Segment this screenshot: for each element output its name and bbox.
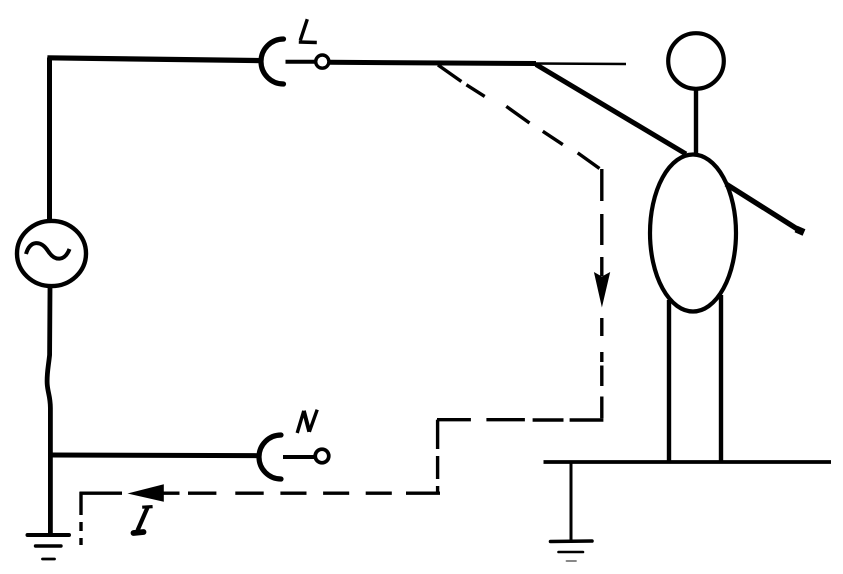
dashed current path: horizontal return to source xyxy=(80,492,441,495)
pin terminal circle N xyxy=(315,449,329,463)
dashed current path: corner and vertical through body xyxy=(600,169,603,276)
dashed current path: horizontal at knee level xyxy=(437,418,603,422)
label I xyxy=(134,507,153,533)
ground symbol (floor earth) xyxy=(551,541,593,561)
wire left vertical (source to neutral junction and ground) xyxy=(47,288,50,535)
label N xyxy=(297,410,317,433)
label L xyxy=(299,19,317,42)
wire thin extension beyond hand xyxy=(536,62,626,65)
AC source V1 xyxy=(17,221,86,286)
wire top-left vertical (source to live line) xyxy=(47,58,52,221)
person body (torso ellipse) xyxy=(650,155,736,312)
ground symbol (source earth) xyxy=(28,535,70,559)
wire from L contact to hand xyxy=(330,62,537,63)
dashed current path: diagonal along arm (dashes) xyxy=(438,65,600,169)
arrowhead down (current direction) xyxy=(594,272,610,308)
person arm touching live wire xyxy=(536,65,686,155)
ground stem (floor earth) xyxy=(570,462,573,540)
wire neutral horizontal (to contact N) xyxy=(50,453,259,459)
pin L (plug pin line) xyxy=(286,60,316,64)
dashed current path: short vertical drop xyxy=(436,420,439,492)
arrowhead left (current direction I) xyxy=(128,484,164,502)
pin terminal circle L xyxy=(316,55,329,68)
person trailing arm xyxy=(726,184,804,233)
pin N (plug pin line) xyxy=(283,455,314,459)
contact L (socket crescent) xyxy=(261,39,284,84)
person left leg xyxy=(667,300,671,462)
person right leg xyxy=(719,295,723,462)
person head xyxy=(668,33,724,89)
person neck xyxy=(694,91,698,154)
dashed current path: vertical below arrow xyxy=(600,318,603,418)
floor line xyxy=(544,460,832,464)
dashed current path: final drop to source earth xyxy=(79,492,82,545)
wire top horizontal (live feed to contact L) xyxy=(47,58,262,61)
contact N (socket crescent) xyxy=(259,435,281,479)
